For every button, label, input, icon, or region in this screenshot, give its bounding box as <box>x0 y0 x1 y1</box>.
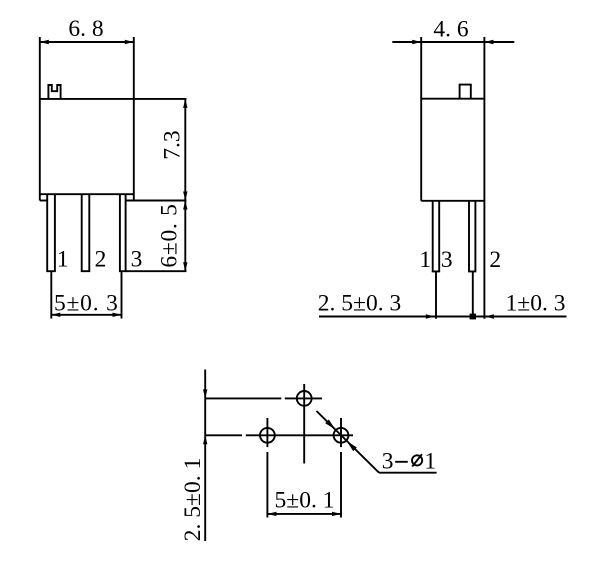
dim 2.5+-0.1 top arrow <box>203 389 207 398</box>
svg-text:4. 6: 4. 6 <box>433 17 469 43</box>
side body right edge + extensions down to bottom dim <box>483 37 485 319</box>
right foot bottom + seating extension to dim <box>126 200 187 202</box>
dim 5+-0.3 line <box>51 314 121 316</box>
shared arrow block at pin2 extension <box>470 314 476 320</box>
svg-text:5±0. 1: 5±0. 1 <box>275 488 335 514</box>
pin 3 <box>120 194 126 271</box>
dim 5+-0.1 left arrow <box>267 512 276 516</box>
dim 7.3 line <box>184 99 186 201</box>
leader 3-dia1 line through hole <box>317 411 380 473</box>
svg-text:2: 2 <box>489 247 501 273</box>
hole bottom-right (pin3) <box>334 428 349 443</box>
dim 5+-0.1 line <box>267 513 341 515</box>
dim 6.8 left arrow <box>40 40 49 44</box>
dim 6+-0.5 line <box>184 201 186 272</box>
svg-text:3: 3 <box>131 247 143 273</box>
dim 6.8 right arrow <box>125 40 134 44</box>
svg-text:3: 3 <box>382 448 394 474</box>
dim 7.3 top arrow <box>183 99 187 108</box>
svg-text:7.3: 7.3 <box>159 130 185 159</box>
dim 6+-0.5 bottom extension from pin3 <box>126 270 187 272</box>
svg-text:1: 1 <box>57 247 69 273</box>
svg-text:2. 5±0. 1: 2. 5±0. 1 <box>180 458 206 541</box>
hole top (pin2) <box>297 391 312 406</box>
dim 4.6 right arrow (outside) <box>484 40 493 44</box>
side pin 2 center extension <box>472 271 474 318</box>
pin 1 <box>47 194 55 271</box>
dim 5+-0.3 right extension <box>121 271 123 318</box>
dim 7.3 bottom arrow <box>183 192 187 201</box>
svg-text:2: 2 <box>95 247 107 273</box>
svg-text:6±0. 5: 6±0. 5 <box>156 203 182 267</box>
dim 5+-0.3 right arrow <box>113 313 122 317</box>
dim 5+-0.3 left extension <box>50 271 52 318</box>
screw slot tab <box>48 85 60 99</box>
hole top centerline <box>303 384 305 464</box>
leader 3-dia1 underline <box>379 472 437 474</box>
label 3-dia1 phi circle <box>412 455 422 465</box>
hole bottom-left centerline / extension <box>266 418 268 447</box>
side pin 1,3 <box>433 201 440 272</box>
svg-text:5±0. 3: 5±0. 3 <box>54 291 119 317</box>
side screw tab <box>460 85 471 99</box>
body left edge + extension <box>39 37 41 201</box>
svg-text:6. 8: 6. 8 <box>68 16 103 42</box>
pin 2 <box>82 194 90 271</box>
bottom row line <box>205 434 242 436</box>
body top line + extension to 7.3 dim <box>40 98 187 100</box>
bottom dim line (2.5 and 1) <box>319 316 567 318</box>
dim 5+-0.1 right arrow <box>332 512 341 516</box>
leader 3-dia1 lower arrow <box>347 441 357 451</box>
dim 2.5+-0.1 bottom arrow <box>203 435 207 444</box>
dim 4.6 line <box>392 41 514 43</box>
side pin 1,3 center extension <box>435 271 437 318</box>
side body bottom line <box>421 200 484 202</box>
svg-text:1±0. 3: 1±0. 3 <box>506 291 566 317</box>
side pin 2 <box>469 201 475 272</box>
svg-text:3: 3 <box>441 247 453 273</box>
dim 1+-0.3 right arrow <box>485 314 494 318</box>
dim 2.5+-0.1 vertical line <box>204 370 206 542</box>
body right edge + extension <box>133 37 135 201</box>
dim 6.8 line <box>40 41 134 43</box>
side body left edge + extension <box>420 37 422 201</box>
label 3-dia1 dash <box>395 461 408 463</box>
svg-text:1: 1 <box>419 247 431 273</box>
leader 3-dia1 upper arrow <box>325 420 335 430</box>
left foot bottom <box>40 200 47 202</box>
top row line <box>205 397 281 399</box>
dim 5+-0.3 left arrow <box>51 313 60 317</box>
hole bottom-right centerline / extension <box>340 418 342 447</box>
dim 6+-0.5 top arrow <box>183 201 187 210</box>
hole bottom-left (pin1) <box>260 428 275 443</box>
dim 6+-0.5 bottom arrow <box>183 262 187 271</box>
svg-text:2. 5±0. 3: 2. 5±0. 3 <box>318 291 401 317</box>
side body top line <box>421 98 484 100</box>
body bottom line <box>40 193 134 195</box>
dim 2.5+-0.3 left arrow <box>426 314 435 318</box>
dim 4.6 left arrow (outside) <box>412 40 421 44</box>
svg-text:1: 1 <box>424 448 436 474</box>
label 3-dia1 phi slash <box>412 454 422 466</box>
